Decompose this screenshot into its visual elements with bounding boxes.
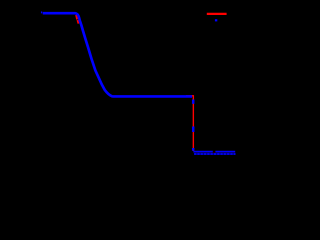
blue dashed bottom line segment 1 xyxy=(193,151,212,153)
red exact curve: bend dash 1 xyxy=(76,15,77,20)
legend blue dash sample xyxy=(215,19,217,21)
red exact curve: shelf end and shock (vertical drop) xyxy=(186,96,193,151)
blue dotted bottom line: dim base xyxy=(194,153,236,155)
blue dotted bottom line: bright dots xyxy=(194,153,235,155)
blue solid curve: flat top, rarefaction slope, middle shelf xyxy=(43,13,192,96)
blue dash on shock (upper) xyxy=(192,100,195,104)
blue dash on shock (middle) xyxy=(192,127,195,133)
red exact curve: faint bottom flat under blue dashes xyxy=(193,151,235,153)
red exact curve: bend dash 2 xyxy=(77,20,78,24)
legend red line sample xyxy=(207,13,227,15)
blue dashed bottom line segment 2 xyxy=(215,151,235,153)
blue dash on shock (corner) xyxy=(192,148,195,151)
blue solid curve: start dash xyxy=(41,11,42,13)
